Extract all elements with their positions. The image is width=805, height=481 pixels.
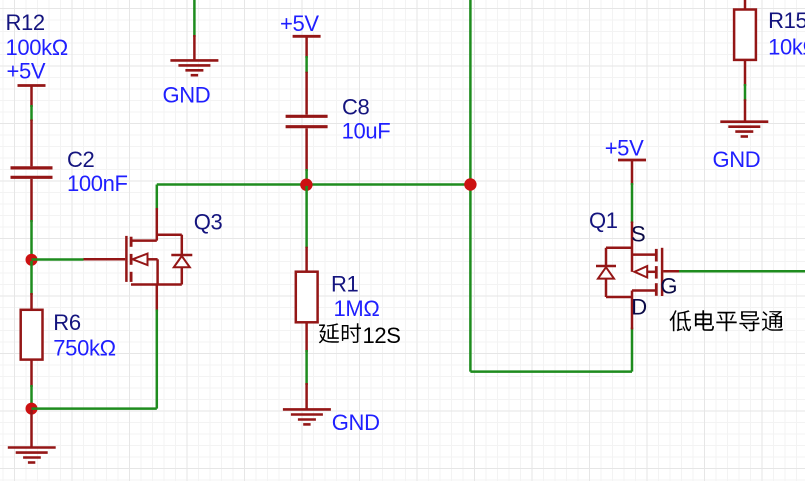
resistor R15 (734, 0, 756, 86)
svg-text:100kΩ: 100kΩ (6, 35, 68, 60)
wire R1 to ground (305, 350, 308, 385)
svg-text:+5V: +5V (605, 136, 644, 161)
svg-text:1MΩ: 1MΩ (334, 296, 380, 321)
resistor R6 (21, 293, 43, 387)
svg-text:G: G (660, 274, 677, 299)
resistor R1 (296, 247, 318, 352)
wire node C to R1 (305, 186, 308, 248)
wire C2 to node A (30, 220, 33, 258)
svg-text:GND: GND (713, 147, 761, 172)
svg-text:R15: R15 (768, 8, 805, 33)
svg-text:GND: GND (332, 410, 380, 435)
wire R15 to ground (744, 84, 747, 101)
svg-text:Q3: Q3 (194, 210, 223, 235)
svg-text:C2: C2 (67, 147, 95, 172)
wire vertical right branch (469, 0, 472, 372)
power symbol +5V (middle) (293, 36, 321, 58)
svg-text:R6: R6 (53, 310, 81, 335)
transistor Q1 (PMOS) (596, 222, 681, 330)
wire C8 to node C (305, 169, 308, 185)
svg-text:750kΩ: 750kΩ (53, 336, 115, 361)
ground (bottom left) (8, 410, 56, 463)
node B (R6/Q3 source junction) (26, 403, 38, 415)
wire +5V to C2 (30, 105, 33, 121)
wire top to GND (middle top) (193, 0, 196, 37)
svg-text:Q1: Q1 (589, 208, 618, 233)
wire node D down-right to Q1 drain (470, 370, 632, 373)
ground (below R1) (283, 383, 331, 424)
ground (top right) (720, 99, 768, 136)
wire +5V to C8 (305, 56, 308, 73)
wire Q1 gate to right edge (679, 270, 805, 273)
main horizontal wire (157, 183, 471, 186)
capacitor C2 (11, 120, 53, 223)
wire R6 to node B (30, 385, 33, 407)
svg-text:+5V: +5V (7, 59, 46, 84)
wire node A to R6 (30, 261, 33, 295)
capacitor C8 (286, 72, 328, 171)
power symbol +5V (left) (18, 86, 46, 108)
node D (right junction) (464, 178, 476, 190)
svg-text:D: D (631, 295, 647, 320)
transistor Q3 (NMOS) (84, 208, 193, 311)
power symbol +5V (Q1) (618, 160, 646, 185)
svg-text:C8: C8 (342, 95, 370, 120)
svg-text:+5V: +5V (280, 11, 319, 36)
svg-text:10uF: 10uF (342, 119, 391, 144)
wire Q3 source down to node B line (156, 310, 159, 409)
node A (C2/R6/Q3 gate junction) (26, 254, 38, 266)
svg-text:R1: R1 (331, 272, 359, 297)
wire node A to Q3 gate (32, 258, 84, 261)
annotation di dian ping dao tong (670, 310, 784, 331)
svg-text:R12: R12 (6, 10, 45, 35)
svg-text:100nF: 100nF (67, 171, 128, 196)
node C (C8/R1 junction) (300, 179, 312, 191)
svg-text:12S: 12S (363, 323, 401, 348)
svg-text:10kΩ: 10kΩ (768, 35, 805, 60)
wire node B to Q3 source (32, 407, 157, 410)
svg-text:S: S (631, 222, 645, 247)
wire +5V to Q1 source (631, 183, 634, 223)
svg-text:GND: GND (163, 82, 211, 107)
annotation yanshi 12S (319, 323, 361, 343)
ground GND (top middle) (170, 35, 218, 75)
wire drop to Q3 drain (156, 185, 159, 211)
